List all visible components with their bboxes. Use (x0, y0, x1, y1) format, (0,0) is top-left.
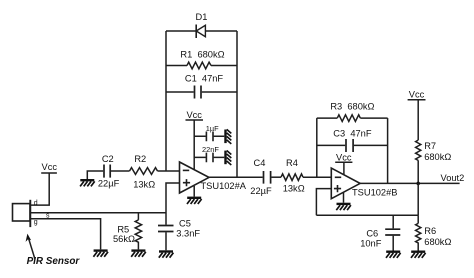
svg-text:Vout2: Vout2 (441, 173, 465, 183)
wire D1 branch (166, 30, 237, 32)
capacitor C3 47nF (333, 129, 372, 152)
op-amp U2 TSU102#B (331, 168, 397, 199)
ground (op-amp A) (187, 197, 202, 204)
resistor R4 13k (281, 158, 305, 194)
wire C2 to R2 (111, 170, 130, 172)
wire stage B feedback box right vertical (387, 118, 389, 183)
wire Vcc stub into op-amp A (193, 120, 195, 170)
capacitor C5 3.3nF (158, 213, 200, 250)
wire pin g to ground (30, 219, 100, 250)
svg-text:22µF: 22µF (250, 186, 272, 196)
wire C4 to R4 (271, 176, 281, 178)
svg-text:1µF: 1µF (206, 124, 219, 133)
wire + input of U1B down to bias node (316, 189, 331, 216)
wire pin s to node A (30, 212, 166, 214)
svg-text:C1 47nF: C1 47nF (185, 74, 224, 84)
svg-text:d: d (34, 200, 38, 207)
wire Vcc stub into op-amp B (343, 162, 345, 175)
wire ground stub U1B (343, 193, 345, 203)
ground (R6) (411, 251, 426, 258)
svg-text:10nF: 10nF (360, 239, 382, 249)
op-amp U1 TSU102#A (180, 162, 247, 193)
wire R3 branch (317, 117, 388, 119)
svg-text:Vcc: Vcc (409, 89, 425, 99)
ground (R5) (131, 249, 146, 256)
svg-text:56kΩ: 56kΩ (113, 234, 135, 244)
wire 22nF branch (194, 156, 224, 158)
resistor R7 680k (416, 140, 452, 162)
node output junction (416, 182, 420, 186)
svg-text:13kΩ: 13kΩ (133, 180, 155, 190)
ground (C6) (386, 251, 401, 258)
power Vcc (op-amp B) (335, 152, 352, 162)
svg-text:22µF: 22µF (98, 179, 120, 189)
svg-text:R6: R6 (424, 226, 436, 236)
wire bias bottom rail (316, 214, 418, 216)
arrow to PIR sensor (26, 234, 35, 259)
svg-text:R3 680kΩ: R3 680kΩ (330, 101, 374, 111)
svg-text:Vcc: Vcc (42, 162, 58, 172)
capacitor C1 47nF (185, 74, 224, 99)
wire ground stub U1A (193, 186, 195, 197)
ground (C2) (80, 179, 95, 186)
wire C1 branch (166, 91, 237, 93)
svg-text:Vcc: Vcc (186, 110, 202, 120)
capacitor C6 10nF (360, 215, 400, 250)
wire C2 to ground (87, 171, 103, 179)
wire stage B feedback box left vertical (316, 118, 318, 177)
ground (op-amp B) (336, 203, 351, 210)
wire R2 to inverting input of U1A (158, 170, 180, 172)
svg-text:Vcc: Vcc (336, 152, 352, 162)
wire + input of U1A down to node (166, 183, 180, 213)
svg-text:TSU102#B: TSU102#B (352, 187, 397, 197)
resistor R2 13k (130, 154, 158, 190)
svg-text:C5: C5 (179, 218, 191, 228)
svg-text:R7: R7 (424, 141, 436, 151)
svg-text:R4: R4 (286, 158, 298, 168)
resistor R3 680k (330, 101, 374, 121)
wire R7 to output node (417, 160, 419, 183)
resistor R5 56k (113, 213, 142, 249)
svg-text:22nF: 22nF (202, 145, 219, 154)
ground (C5) (159, 250, 174, 257)
resistor R6 680k (416, 215, 452, 250)
wire Vcc to pin d (30, 173, 49, 205)
power Vcc (op-amp A) (186, 110, 204, 120)
capacitor 22nF (202, 145, 219, 162)
diode D1 (196, 12, 208, 38)
svg-text:g: g (34, 219, 38, 226)
svg-text:R2: R2 (134, 154, 146, 164)
svg-text:680kΩ: 680kΩ (424, 237, 451, 247)
ground (22nF) (224, 151, 231, 166)
svg-text:R1 680kΩ: R1 680kΩ (180, 49, 224, 59)
wire R4 to inverting input of U1B (303, 176, 331, 178)
resistor R1 680k (180, 49, 224, 69)
ground (1uF) (224, 129, 231, 144)
svg-text:680kΩ: 680kΩ (424, 152, 451, 162)
wire C3 branch (317, 144, 388, 146)
PIR sensor body (13, 200, 31, 227)
ground (pin g) (93, 249, 108, 256)
wire U1A output to C4 (209, 176, 263, 178)
svg-text:13kΩ: 13kΩ (283, 184, 305, 194)
svg-text:3.3nF: 3.3nF (176, 229, 200, 239)
svg-text:D1: D1 (196, 12, 208, 22)
svg-text:C2: C2 (102, 154, 114, 164)
capacitor C2 22uF (98, 154, 120, 189)
svg-text:C4: C4 (254, 158, 266, 168)
svg-text:C3 47nF: C3 47nF (333, 129, 372, 139)
svg-text:C6: C6 (366, 228, 378, 238)
wire Vcc to R7 (417, 100, 419, 140)
power Vcc (right) (408, 89, 426, 99)
svg-text:PIR Sensor: PIR Sensor (27, 256, 81, 267)
svg-text:TSU102#A: TSU102#A (201, 181, 247, 191)
wire output node down to bias rail (417, 183, 419, 215)
power Vcc (PIR sensor) (41, 162, 57, 173)
wire 1uF branch (194, 135, 224, 137)
wire U1B output to Vout2 (360, 182, 460, 184)
wire R1 branch (166, 65, 237, 67)
capacitor C4 22uF (250, 158, 272, 196)
capacitor 1uF (206, 124, 219, 141)
wire stage A feedback box left vertical (165, 31, 167, 171)
wire stage A feedback box right vertical (236, 31, 238, 177)
